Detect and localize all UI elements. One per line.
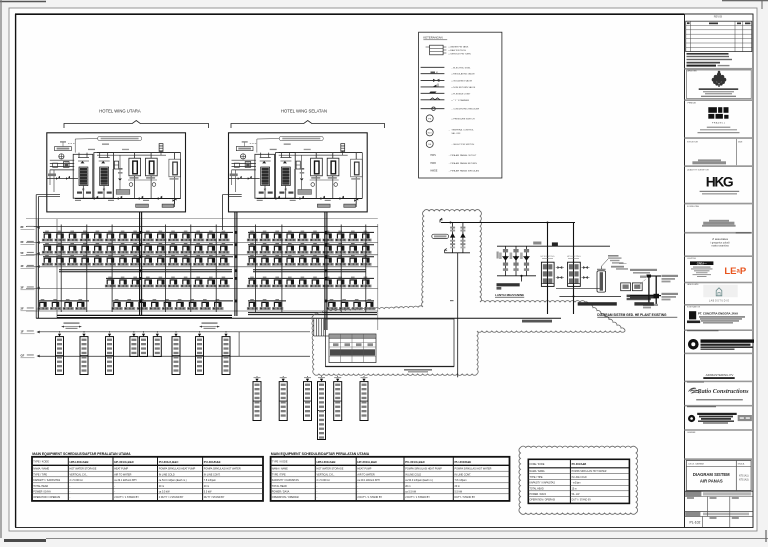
svg-text:AIR TO WATER: AIR TO WATER	[357, 473, 374, 476]
unit row 4 section A	[105, 277, 116, 288]
separator bar	[685, 381, 754, 383]
hp unit risers to manifold	[260, 153, 262, 158]
heavy riser 3	[324, 212, 326, 330]
unit row 5 section A right	[112, 299, 123, 310]
sheet number row	[685, 512, 700, 517]
svg-text:KAPASITY / KAPASITAS: KAPASITY / KAPASITAS	[33, 479, 60, 482]
svg-text:QUANTITY SURVEYOR: QUANTITY SURVEYOR	[687, 169, 709, 172]
unit row at 232.2 section B	[247, 231, 258, 242]
tower label block	[630, 269, 657, 271]
top area dashes	[68, 143, 75, 145]
svg-text:POMPA SIRKULASI HOT WATER: POMPA SIRKULASI HOT WATER	[204, 468, 241, 471]
manifold piping top	[279, 152, 363, 154]
svg-text:3F: 3F	[21, 286, 24, 290]
svg-text:= REGULATING VALVE: = REGULATING VALVE	[451, 73, 475, 76]
svg-text:NAMA / NAMA: NAMA / NAMA	[530, 470, 546, 473]
svg-text:d' associates: d' associates	[712, 237, 729, 241]
wing brace	[64, 121, 209, 129]
riser bar x59.5	[56, 337, 64, 375]
pipe start elbow hook	[440, 218, 443, 222]
heat pump unit B	[94, 153, 114, 199]
legend circle ECO	[426, 129, 433, 136]
riser bar x133.9	[130, 337, 138, 357]
grid borders	[37, 219, 39, 318]
riser bar x176	[172, 337, 180, 375]
chimney vent	[159, 144, 163, 152]
separator bar	[685, 304, 754, 306]
callout label heat pump	[98, 136, 142, 140]
svg-text:IN LINE CONT.: IN LINE CONT.	[455, 473, 472, 476]
valve marks bottom	[94, 196, 98, 200]
legend symbol line	[421, 66, 445, 68]
svg-text:TYPE / TIPE: TYPE / TIPE	[530, 477, 543, 479]
unit row at 244.5 section A	[42, 243, 53, 254]
separator bar	[685, 68, 754, 70]
right side pipe drop	[361, 153, 363, 199]
svg-text:CREA—: CREA—	[697, 261, 707, 265]
title block column	[684, 14, 686, 528]
plant top pipe	[441, 222, 575, 224]
legend symbol strain	[421, 99, 445, 101]
svg-text:8F: 8F	[21, 225, 24, 229]
bottom info grid	[685, 491, 701, 496]
riser bar x321.5	[318, 382, 326, 440]
svg-text:20 m: 20 m	[405, 485, 410, 488]
pipe connector vertical	[238, 332, 240, 357]
misc small labels	[257, 200, 263, 201]
top area dashes	[250, 143, 257, 145]
svg-text:NAMA / NAME: NAMA / NAME	[272, 468, 288, 471]
svg-text:IN LINE CONT.: IN LINE CONT.	[204, 473, 221, 476]
svg-text:HEAT PUMP: HEAT PUMP	[357, 468, 371, 471]
storage tank 3	[169, 159, 181, 177]
valve pair in cloud	[452, 223, 454, 253]
wing brace	[231, 121, 385, 129]
PT contractor cell with black mark	[689, 311, 696, 319]
svg-text:CATATAN: CATATAN	[687, 431, 696, 434]
riser bar x84	[80, 337, 88, 375]
svg-text:– SELECTOR SWITCH: – SELECTOR SWITCH	[451, 144, 474, 146]
svg-text:TYPE / TIPE: TYPE / TIPE	[272, 473, 286, 476]
unit row at 232.2 section A	[42, 231, 53, 242]
right tank connections	[316, 154, 333, 156]
cylinder leader labels	[601, 259, 608, 266]
branch pipe row 256.5	[43, 256, 233, 258]
legend symbol flex	[421, 92, 445, 94]
storage tank 2	[146, 158, 158, 176]
svg-text:STRUKTUR: STRUKTUR	[687, 141, 698, 143]
svg-text:NTS (A1): NTS (A1)	[739, 474, 749, 477]
equipment pad	[116, 190, 130, 195]
svg-text:TOTAL HEAD: TOTAL HEAD	[33, 485, 48, 488]
separator bar	[685, 429, 754, 431]
svg-text:– CONCENTRIC REDUCER: – CONCENTRIC REDUCER	[451, 109, 479, 111]
svg-text:HP-301/A,B&C: HP-301/A,B&C	[357, 460, 378, 464]
pipe bundle into box	[313, 319, 315, 336]
dark label bars	[578, 302, 617, 305]
svg-text:LANDSCAPE: LANDSCAPE	[687, 283, 699, 286]
svg-text:LANTAI MEZZANINE: LANTAI MEZZANINE	[495, 293, 524, 297]
svg-text:ca 29.1 kW/unit 3PH: ca 29.1 kW/unit 3PH	[114, 479, 136, 482]
svg-text:NAMA / NAME: NAMA / NAME	[33, 468, 49, 471]
svg-text:KAPASITY / KAPASITAS: KAPASITY / KAPASITAS	[272, 479, 299, 482]
CREA logo block	[690, 261, 713, 265]
svg-text:AIRMASTERING PV: AIRMASTERING PV	[706, 373, 734, 377]
svg-text:DUTY / STAND BY: DUTY / STAND BY	[455, 496, 476, 499]
svg-text:DIAGRAM SISTEM GED. HE PLANT E: DIAGRAM SISTEM GED. HE PLANT EXISTING	[597, 313, 667, 317]
svg-text:TYPE / TIPE: TYPE / TIPE	[33, 473, 47, 476]
svg-text:– PIPA AIR PANAS SIRKULASI: – PIPA AIR PANAS SIRKULASI	[449, 170, 480, 173]
unit row 5 section A left	[37, 299, 48, 310]
floor lines	[26, 218, 378, 220]
svg-text:2 x 5.000 Ltr: 2 x 5.000 Ltr	[70, 479, 84, 482]
svg-text:P R A D E L L: P R A D E L L	[712, 121, 726, 124]
legend tank symbol	[430, 45, 444, 55]
svg-text:– PIPA AIR PANAS RETURN: – PIPA AIR PANAS RETURN	[449, 162, 478, 165]
svg-text:POWER / DAYA: POWER / DAYA	[33, 491, 51, 494]
left exit pipes	[47, 194, 60, 196]
svg-text:LIGHTING: LIGHTING	[687, 258, 696, 260]
svg-text:6F: 6F	[21, 240, 24, 244]
PRV lower manifold	[497, 275, 536, 277]
long pipe level 1F	[38, 331, 310, 333]
svg-text:PU-301/D&E: PU-301/D&E	[204, 460, 221, 464]
header row bottom border	[32, 464, 263, 466]
svg-text:2 DUTY / 1 STAND BY: 2 DUTY / 1 STAND BY	[159, 496, 184, 499]
riser bar x109.5	[106, 337, 114, 375]
roof tank left	[232, 159, 256, 161]
riser bar x157.3	[153, 337, 161, 357]
storage tank 1	[311, 158, 323, 176]
expansion tank	[114, 161, 118, 169]
unit row 5 section B right	[326, 299, 337, 310]
svg-text:4F: 4F	[21, 264, 24, 268]
revision cloud around plant	[312, 210, 625, 376]
separator bar	[685, 203, 754, 205]
svg-text:= WATER FIN TANK: = WATER FIN TANK	[448, 46, 468, 49]
svg-text:HPH-301/A&B: HPH-301/A&B	[70, 460, 89, 464]
roof tank left	[50, 159, 74, 161]
svg-text:TOTAL HEAD: TOTAL HEAD	[272, 485, 287, 488]
svg-text:PL-102: PL-102	[690, 521, 701, 525]
heat pump unit A	[255, 154, 275, 198]
callout label heat pump	[279, 136, 323, 140]
svg-text:KONSULTAN: KONSULTAN	[687, 205, 699, 208]
svg-text:MAIN EQUIPMENT SCHEDULE/DAFT: MAIN EQUIPMENT SCHEDULE/DAFTAR PERALATAN…	[271, 452, 370, 456]
svg-text:HEAT PUMP: HEAT PUMP	[114, 468, 128, 471]
svg-text:IN LINE COLD: IN LINE COLD	[159, 473, 175, 476]
svg-text:OPERATION / OPERASI: OPERATION / OPERASI	[530, 499, 556, 502]
wing box 2 left drop pipes	[223, 194, 229, 196]
label box	[236, 147, 253, 151]
svg-text:2 DUTY / 1 STAND BY: 2 DUTY / 1 STAND BY	[405, 496, 430, 499]
ceiling distribution double line section B	[253, 269, 366, 271]
valve bottom line	[445, 252, 471, 254]
heavy riser 1	[139, 212, 141, 316]
svg-text:OPERATION / OPERASI: OPERATION / OPERASI	[272, 496, 299, 499]
svg-text:= " Y " STRAINER: = " Y " STRAINER	[451, 99, 469, 102]
svg-text:HP-301/A,B&C: HP-301/A,B&C	[114, 460, 135, 464]
svg-text:= PRESSURE SWITCH: = PRESSURE SWITCH	[451, 118, 475, 120]
svg-text:REVISI: REVISI	[714, 15, 723, 19]
mezzanine label bars	[497, 283, 520, 286]
bak air existing label	[404, 369, 432, 371]
svg-text:2F: 2F	[21, 307, 24, 311]
svg-text:POMPA SIRKULASI HOT WATER: POMPA SIRKULASI HOT WATER	[455, 468, 492, 471]
svg-text:AIR PANAS: AIR PANAS	[700, 479, 723, 484]
riser bar group 1 dimension labels	[64, 322, 80, 323]
svg-text:NTS (A3): NTS (A3)	[739, 478, 749, 481]
right pipe labels lower	[662, 293, 679, 295]
svg-text:20 m: 20 m	[455, 485, 460, 488]
heat pump unit B	[276, 153, 296, 199]
separator bar	[685, 255, 754, 257]
svg-text:POMPA SIRKULASI HEAT PUMP: POMPA SIRKULASI HEAT PUMP	[159, 468, 196, 471]
PRV manifold top	[497, 245, 610, 247]
pipe under skids	[556, 287, 600, 289]
svg-text:HOT WATER STORAGE: HOT WATER STORAGE	[317, 468, 344, 471]
svg-text:GF: GF	[21, 354, 25, 358]
svg-text:HP EXISTING: HP EXISTING	[541, 256, 555, 258]
separator bar	[685, 405, 754, 407]
valve label box	[432, 234, 449, 238]
Ratio Constructions cell script logo	[689, 388, 700, 393]
svg-text:HWDE: HWDE	[430, 171, 437, 173]
legend symbol hpv	[421, 86, 445, 88]
svg-text:TYPE / KODE: TYPE / KODE	[272, 461, 288, 464]
svg-text:– ELECTRIC SIGN.: – ELECTRIC SIGN.	[451, 67, 471, 69]
hp unit lower labels	[77, 192, 82, 194]
branch pipe row 5	[39, 300, 89, 302]
svg-text:HOTEL WING SELATAN: HOTEL WING SELATAN	[281, 109, 327, 114]
certification cell with gear logo	[688, 415, 695, 422]
riser bar x226	[222, 337, 230, 375]
valve marks bottom	[276, 196, 280, 200]
separator bar	[685, 282, 754, 284]
svg-text:POMPA SIRKULASI HOT WATER: POMPA SIRKULASI HOT WATER	[572, 470, 607, 473]
svg-text:L A B O S T U D I O: L A B O S T U D I O	[709, 300, 729, 303]
main horizontal pipe to plant	[36, 317, 561, 319]
svg-text:SKALA: SKALA	[738, 462, 745, 465]
svg-text:HOTEL WING UTARA: HOTEL WING UTARA	[99, 109, 141, 114]
PRV labels side	[497, 252, 499, 259]
left piping assembly	[47, 178, 78, 180]
svg-text:HP EXISTING: HP EXISTING	[567, 256, 581, 258]
svg-text:PU-301/A,B&C: PU-301/A,B&C	[405, 460, 426, 464]
svg-text:5F: 5F	[21, 251, 24, 255]
separator bar	[685, 353, 754, 355]
note text lines	[687, 53, 729, 55]
svg-text:DIAGRAM SISTEM: DIAGRAM SISTEM	[693, 472, 730, 477]
small schedule table in box	[329, 334, 376, 363]
schedule table frame	[271, 457, 510, 501]
svg-text:AIR TO WATER: AIR TO WATER	[114, 473, 131, 476]
center piping detail	[112, 169, 114, 199]
label box	[55, 147, 72, 151]
svg-text:PU-301/A,B&C: PU-301/A,B&C	[159, 460, 180, 464]
svg-text:ECO: ECO	[428, 133, 432, 135]
unit row at 256.5 section B	[247, 255, 258, 266]
structure cell two columns with signature	[735, 139, 737, 165]
manifold piping top	[97, 152, 181, 154]
grid bottom double line section B	[248, 312, 377, 314]
svg-text:M&E: M&E	[738, 141, 743, 143]
svg-text:15 m: 15 m	[572, 489, 577, 491]
separator bar	[685, 232, 754, 234]
ceiling distribution double line section A	[59, 269, 232, 271]
heat pump unit A	[73, 154, 93, 198]
svg-text:– PIPA AIR PANAS OUTLET: – PIPA AIR PANAS OUTLET	[449, 154, 477, 157]
svg-text:KAPASITY / KAPASITAS: KAPASITY / KAPASITAS	[530, 482, 556, 485]
svg-text:HWS: HWS	[430, 155, 436, 157]
svg-text:= NON RETURN VALVE: = NON RETURN VALVE	[451, 86, 475, 89]
svg-text:5.5 kW: 5.5 kW	[455, 491, 463, 494]
separator bar	[685, 329, 754, 331]
riser bar x337.7	[334, 382, 342, 421]
svg-text:TEMPERA. CONTROL: TEMPERA. CONTROL	[451, 128, 474, 131]
riser bar x199.5	[196, 337, 204, 375]
svg-text:2 DUTY / 1 STAND BY: 2 DUTY / 1 STAND BY	[114, 496, 139, 499]
storage tank 1	[129, 158, 141, 176]
svg-text:ca 54.0 m3/jam (Each m.): ca 54.0 m3/jam (Each m.)	[159, 479, 187, 482]
svg-text:LEaP: LEaP	[724, 266, 746, 277]
svg-text:TOTAL HEAD: TOTAL HEAD	[530, 488, 544, 491]
svg-text:DUTY / STAND BY: DUTY / STAND BY	[572, 499, 592, 502]
bottom manifold piping	[257, 198, 363, 200]
center piping detail	[294, 169, 296, 199]
svg-text:VERTICAL CYL.: VERTICAL CYL.	[70, 473, 88, 476]
branch pipe row 4	[106, 277, 233, 279]
pump labels	[627, 295, 658, 298]
riser bar x143.5	[140, 337, 148, 357]
expansion tank	[296, 161, 300, 169]
riser bar x257	[253, 382, 261, 421]
right tank connections	[135, 154, 152, 156]
svg-text:PU-301/D&E: PU-301/D&E	[455, 460, 472, 464]
legend symbol ivalve	[421, 79, 445, 81]
svg-text:HKG: HKG	[706, 175, 733, 190]
vertical pipes to existing plant	[547, 223, 549, 315]
svg-text:20 m: 20 m	[204, 485, 209, 488]
separator bar	[685, 165, 754, 167]
svg-text:PU-301/A&B: PU-301/A&B	[572, 463, 587, 466]
svg-text:ca 5.5 kW: ca 5.5 kW	[159, 491, 171, 494]
unit row at 256.5 section A	[42, 255, 53, 266]
wing box 1 left drop pipes	[36, 194, 47, 196]
schedule table 3 in cloud	[528, 459, 629, 503]
svg-text:OPERATION / OPERASI: OPERATION / OPERASI	[33, 496, 60, 499]
legend symbol mvalve	[421, 73, 445, 75]
hp unit lower labels	[259, 192, 264, 194]
legend symbol reduc	[421, 108, 445, 110]
chimney vent	[341, 144, 345, 152]
pipe down from valves	[457, 253, 459, 377]
svg-text:= FLEXIBLE JOINT: = FLEXIBLE JOINT	[451, 93, 471, 95]
svg-text:5.5 kW: 5.5 kW	[204, 491, 212, 494]
separator bar	[685, 99, 754, 101]
PRV assemblies	[505, 246, 507, 276]
svg-text:VAL-OFF: VAL-OFF	[451, 132, 461, 135]
legend box KETERANGAN	[419, 32, 502, 178]
housekeeping pads	[136, 204, 149, 207]
svg-text:PEMILIK: PEMILIK	[688, 103, 697, 105]
legend circle PS pressure switch	[426, 115, 433, 122]
unit row 4 section B	[247, 277, 258, 288]
labostudio cell house icon	[703, 285, 737, 297]
right pipe labels upper	[662, 275, 679, 277]
light vertical risers	[60, 225, 62, 313]
riser bar x307.5	[304, 382, 312, 421]
svg-text:MAIN EQUIPMENT SCHEDULE/DAFT: MAIN EQUIPMENT SCHEDULE/DAFTAR PERALATAN…	[32, 452, 131, 456]
svg-text:IN LINE COLD: IN LINE COLD	[405, 473, 421, 476]
svg-text:7.8 m3/jam: 7.8 m3/jam	[455, 479, 467, 482]
svg-text:2 DUTY / 1 STAND BY: 2 DUTY / 1 STAND BY	[357, 496, 382, 499]
svg-text:POWER / DAYA: POWER / DAYA	[530, 493, 547, 496]
riser junction dots	[139, 231, 142, 234]
hp unit risers to manifold	[78, 153, 80, 158]
note text block	[611, 266, 624, 268]
branch pipe row 244.5	[43, 244, 233, 246]
svg-text:POWER / DAYA: POWER / DAYA	[272, 491, 290, 494]
svg-text:- m3/jam: - m3/jam	[572, 483, 581, 485]
svg-text:HWR: HWR	[430, 163, 436, 165]
svg-text:= RAW FIN TECH: = RAW FIN TECH	[448, 49, 466, 52]
plant room box HOTEL WING UTARA	[47, 133, 186, 212]
branch pipe row 232.2	[43, 231, 233, 233]
lower plant box	[325, 319, 454, 367]
lower cloud around table3	[519, 446, 638, 514]
separator bar	[685, 137, 754, 139]
right pipes elbow	[648, 276, 650, 306]
inter-skid valves	[557, 266, 562, 269]
misc small labels	[75, 200, 81, 201]
housekeeping pads	[317, 204, 330, 207]
svg-text:IN LINE COLD: IN LINE COLD	[572, 477, 587, 479]
right side pipe drop	[180, 153, 182, 199]
svg-text:POMPA SIRKULASI HEAT PUMP: POMPA SIRKULASI HEAT PUMP	[405, 468, 442, 471]
ME contractor cell black logo text	[688, 339, 699, 350]
svg-text:VERTICAL CYL.: VERTICAL CYL.	[317, 473, 335, 476]
long pipe level GF	[38, 355, 310, 357]
svg-text:1F: 1F	[21, 330, 24, 334]
svg-text:2 x 5.000 Ltr: 2 x 5.000 Ltr	[317, 479, 331, 482]
svg-text:= ISOLATING VALVE: = ISOLATING VALVE	[451, 79, 472, 82]
svg-text:20 m: 20 m	[159, 485, 164, 488]
plant room box HOTEL WING SELATAN	[229, 133, 368, 212]
storage tank 3	[351, 159, 363, 177]
svg-text:DUTY / STAND BY: DUTY / STAND BY	[204, 496, 225, 499]
svg-text:KONTRAKTOR: KONTRAKTOR	[687, 305, 701, 308]
riser bar x364	[360, 382, 368, 421]
svg-text:KODE / KODE: KODE / KODE	[530, 464, 545, 466]
table small cell marks	[333, 343, 339, 346]
left piping assembly	[229, 178, 260, 180]
legend circle SS selector switch	[426, 140, 433, 147]
bottom manifold piping	[75, 198, 181, 200]
svg-text:PT. CONCITRA ENGGRA JAYA: PT. CONCITRA ENGGRA JAYA	[698, 312, 738, 316]
unit row 5 section B left	[247, 299, 258, 310]
svg-text:Ratio Constructions: Ratio Constructions	[696, 388, 749, 395]
svg-text:ca 29.1 kW/unit 3PH: ca 29.1 kW/unit 3PH	[357, 479, 379, 482]
grid bottom double line section A	[57, 314, 232, 316]
svg-text:7.8 m3/jam: 7.8 m3/jam	[204, 479, 216, 482]
transfer pumps	[621, 283, 631, 291]
tank labels	[130, 177, 139, 178]
equipment pad	[298, 190, 312, 195]
title cell JUDUL GAMBAR	[685, 458, 754, 460]
schedule table frame	[32, 457, 263, 501]
tank labels	[311, 177, 320, 178]
